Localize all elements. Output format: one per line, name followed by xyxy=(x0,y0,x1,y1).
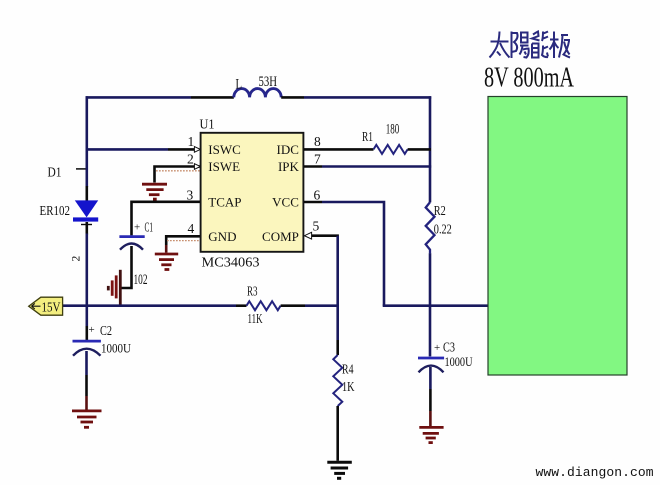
pin 1 arrow xyxy=(194,147,200,153)
svg-text:1000U: 1000U xyxy=(101,341,132,356)
svg-text:R2: R2 xyxy=(434,204,446,219)
svg-text:3: 3 xyxy=(187,187,194,202)
pin number 2 xyxy=(187,151,194,166)
pin number 2 of D1 (rotated) xyxy=(71,256,83,262)
svg-text:R4: R4 xyxy=(342,363,354,378)
pin name IPK xyxy=(278,159,300,174)
solar panel block xyxy=(488,97,627,376)
label R2 xyxy=(434,204,446,219)
svg-text:180: 180 xyxy=(386,122,400,138)
svg-text:5: 5 xyxy=(313,219,320,234)
pin number 7 xyxy=(314,151,321,166)
ground (C3, maroon) xyxy=(419,427,443,442)
pin name ISWC xyxy=(208,142,241,157)
value 1K xyxy=(342,380,355,395)
svg-text:TCAP: TCAP xyxy=(208,194,241,209)
wire pin8 net right stub xyxy=(408,148,431,151)
wire output horizontal to panel xyxy=(383,304,489,307)
wire C1 bottom to 102 ground xyxy=(121,246,132,288)
svg-text:+: + xyxy=(134,222,140,234)
wavy artifact under pin4 wire xyxy=(167,240,200,242)
pin number 4 xyxy=(188,221,195,236)
svg-text:+: + xyxy=(434,342,440,354)
wire 15V bus horizontal xyxy=(62,304,247,307)
ground (C2, maroon) xyxy=(72,411,102,427)
resistor R2 xyxy=(426,202,435,253)
pin number 5 xyxy=(313,219,320,234)
ground (pin2, maroon) xyxy=(142,184,167,199)
wire pin2 net to ground xyxy=(155,167,201,183)
label L xyxy=(236,77,243,93)
resistor R1 xyxy=(374,145,408,154)
svg-text:ER102: ER102 xyxy=(40,203,71,218)
wire C3 to ground xyxy=(429,367,432,426)
label R3 xyxy=(247,285,258,300)
label D1 xyxy=(48,165,62,180)
wire left vertical D1 to bus and C2 xyxy=(86,234,89,341)
svg-text:VCC: VCC xyxy=(272,194,299,209)
svg-text:11K: 11K xyxy=(248,312,263,327)
value 11K xyxy=(248,312,263,327)
pin name IDC xyxy=(277,142,299,157)
svg-text:2: 2 xyxy=(187,151,194,166)
op-amp U1 IC body MC34063 xyxy=(201,133,304,252)
pin name GND xyxy=(208,229,236,244)
ground (pin4, maroon) xyxy=(155,254,178,270)
svg-text:IPK: IPK xyxy=(278,159,300,174)
svg-text:www.diangon.com: www.diangon.com xyxy=(536,465,654,480)
svg-text:53H: 53H xyxy=(259,74,278,90)
svg-text:+: + xyxy=(89,324,95,336)
svg-text:15V: 15V xyxy=(42,300,61,315)
wire right vertical R2 to C3 xyxy=(429,253,432,356)
wire pin7 net xyxy=(304,165,431,168)
wire pin4 net to ground xyxy=(166,236,200,252)
ground (R4, black) xyxy=(327,462,352,478)
wire right vertical from top corner to R2 xyxy=(429,96,432,202)
svg-text:8V 800mA: 8V 800mA xyxy=(484,63,575,94)
pin number 8 xyxy=(314,134,321,149)
pin name COMP xyxy=(262,229,299,244)
svg-text:C2: C2 xyxy=(100,323,112,338)
label U1 xyxy=(200,117,215,132)
svg-text:1: 1 xyxy=(188,134,195,149)
label 8V 800mA xyxy=(484,63,575,94)
value 1000U (C2) xyxy=(101,341,132,356)
wire pin8 net left stub xyxy=(304,148,374,151)
value 102 xyxy=(134,272,148,288)
value 180 xyxy=(386,122,400,138)
svg-text:IDC: IDC xyxy=(277,142,299,157)
label + C1 xyxy=(134,220,153,235)
watermark www.diangon.com xyxy=(536,465,654,480)
pin name ISWE xyxy=(208,159,240,174)
pin name TCAP xyxy=(208,194,241,209)
svg-text:GND: GND xyxy=(208,229,236,244)
label + C3 xyxy=(434,340,455,355)
wire pin1 net (node A horizontal) xyxy=(86,148,195,151)
ground 102 (rotated, maroon) xyxy=(108,270,120,305)
capacitor C1 xyxy=(119,237,144,250)
svg-text:COMP: COMP xyxy=(262,229,299,244)
svg-text:102: 102 xyxy=(134,272,148,288)
svg-text:U1: U1 xyxy=(200,117,215,132)
value ER102 xyxy=(40,203,71,218)
value 53H xyxy=(259,74,278,90)
capacitor C2 xyxy=(73,341,101,356)
capacitor C3 xyxy=(418,358,444,372)
value 1000U (C3) xyxy=(445,354,473,369)
svg-text:C3: C3 xyxy=(443,340,455,355)
wavy artifact under pin2 wire xyxy=(156,170,200,172)
port 15V xyxy=(29,297,63,315)
wire pin6 net VCC xyxy=(304,202,384,306)
svg-text:1K: 1K xyxy=(342,380,355,395)
wire R3 to pin5 junction xyxy=(281,304,339,307)
svg-text:R1: R1 xyxy=(362,130,373,145)
pin name VCC xyxy=(272,194,299,209)
value 0.22 xyxy=(434,223,452,238)
label R4 xyxy=(342,363,354,378)
svg-text:2: 2 xyxy=(71,256,83,262)
svg-text:0.22: 0.22 xyxy=(434,223,452,238)
svg-text:D1: D1 xyxy=(48,165,62,180)
svg-text:C1: C1 xyxy=(145,220,154,235)
label MC34063 xyxy=(202,255,260,270)
wire pin5 net xyxy=(312,236,339,306)
wire top horizontal left of L xyxy=(86,96,234,99)
svg-text:8: 8 xyxy=(314,134,321,149)
diode D1 xyxy=(73,186,98,235)
label + C2 xyxy=(89,323,113,338)
resistor R3 xyxy=(247,301,281,310)
wire top-left vertical (input bus left side) xyxy=(86,96,89,187)
svg-text:1000U: 1000U xyxy=(445,354,473,369)
wire R4 to ground xyxy=(336,406,339,461)
resistor R4 xyxy=(333,355,342,406)
svg-text:R3: R3 xyxy=(247,285,258,300)
svg-text:4: 4 xyxy=(188,221,195,236)
label 太陽能板 (hand-drawn strokes) xyxy=(490,32,571,59)
wire top horizontal right of L xyxy=(281,96,431,99)
wire pin5 junction down to R4 xyxy=(336,306,339,355)
wire C2 to ground xyxy=(85,351,88,410)
label R1 xyxy=(362,130,373,145)
pin number 3 xyxy=(187,187,194,202)
pin number 1 xyxy=(188,134,195,149)
svg-text:ISWC: ISWC xyxy=(208,142,241,157)
svg-text:7: 7 xyxy=(314,151,321,166)
pin tick near D1 xyxy=(76,168,86,170)
pin 5 arrow xyxy=(304,232,311,239)
svg-text:6: 6 xyxy=(314,187,321,202)
inductor L xyxy=(234,89,281,98)
pin 2 arrow xyxy=(194,164,200,170)
svg-text:MC34063: MC34063 xyxy=(202,255,260,270)
pin number 6 xyxy=(314,187,321,202)
svg-text:L: L xyxy=(236,77,243,93)
svg-text:ISWE: ISWE xyxy=(208,159,240,174)
wire pin3 net to C1 xyxy=(132,202,201,236)
